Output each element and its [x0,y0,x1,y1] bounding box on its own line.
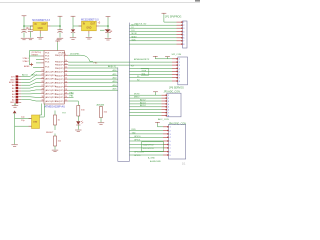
pin IC3 right 4 [64,67,68,69]
label R4 net [97,103,105,106]
microcontroller IC3 right pin names [55,55,64,103]
svg-text:3V3: 3V3 [11,76,16,78]
svg-text:PB0(ICP): PB0(ICP) [55,75,64,77]
bus vertical left segment [117,68,119,162]
wire reg1 output riser [59,17,61,26]
wire R4 bottom lead [100,118,102,123]
svg-text:20: 20 [65,96,67,98]
ground under J1 [12,103,18,107]
svg-text:MOSI: MOSI [134,94,140,96]
crystal Q1 labels [21,117,25,123]
svg-text:24: 24 [42,74,44,76]
wire R1 top lead [54,111,56,116]
supply symbol +V reg1 input [22,16,27,17]
wire reg1 input riser [23,17,25,26]
label reset net [46,132,54,134]
ground under R4 [98,123,104,125]
supply symbol conn2 [153,56,158,57]
svg-text:1k: 1k [58,120,61,122]
svg-text:PB3: PB3 [94,62,99,64]
svg-text:PB0(ICP): PB0(ICP) [55,62,64,64]
pin IC3 left lower 1 [41,70,45,72]
connector JP3 body [167,93,181,117]
svg-text:(ADC0)PC0: (ADC0)PC0 [45,96,57,99]
svg-text:A_GND: A_GND [148,157,155,160]
label net ADC bus [22,73,38,76]
supply symbol +3V3 reg1 output [58,16,63,17]
wire IC3 to JP2 row2 [68,61,172,63]
junction mcu reset [30,63,33,66]
wire reg1 input rail [24,25,33,27]
svg-text:31: 31 [42,100,44,102]
svg-text:OUT: OUT [90,24,95,26]
svg-text:A1: A1 [12,87,15,90]
svg-text:10k: 10k [58,141,62,143]
pin IC3 left upper 3 [41,62,45,64]
svg-text:1u: 1u [110,30,113,33]
svg-text:ADC_CON: ADC_CON [158,118,169,121]
ground under C2 [27,38,33,40]
ground under IC1 [37,37,43,39]
svg-text:OUT: OUT [42,24,47,26]
svg-text:MOSI: MOSI [132,33,138,35]
ground under C4 [70,38,76,40]
svg-text:XTAL1: XTAL1 [23,57,30,60]
labels JP3 nets [134,94,146,108]
svg-text:GPIO5: GPIO5 [134,155,141,157]
svg-text:(ADC0)PC0: (ADC0)PC0 [45,74,57,77]
connector JP1 body [183,21,188,48]
svg-text:25: 25 [42,77,44,79]
capacitor C4 [71,29,75,32]
wire mcu reset drop [28,51,30,65]
wire xtal1 up [40,104,42,116]
wire mcu left pin d [33,66,41,68]
svg-text:PB0(ICP): PB0(ICP) [55,65,64,67]
svg-text:RESET: RESET [46,132,54,134]
connector JP1 header label [165,15,181,18]
ground under R2 [52,150,58,152]
voltage regulator IC1 label [32,19,50,22]
svg-text:29: 29 [42,92,44,94]
label net top right [70,54,80,56]
svg-text:TST: TST [62,112,67,114]
pin IC3 right 1 [64,54,68,56]
microcontroller IC3 left pin names [45,52,50,68]
frame top edge line [0,2,200,4]
pin IC3 right 10 [64,89,68,91]
connector JP3 header label [164,91,181,94]
connector JP1 pin stubs [177,21,183,44]
connector JP4 body [169,125,186,159]
labels JP1 nets [132,23,147,41]
wire cap C2 top lead [30,26,32,30]
wires J1 to IC3 [21,71,40,101]
svg-text:(ADC0)PC0: (ADC0)PC0 [45,85,57,88]
svg-text:PB0(ICP): PB0(ICP) [55,94,64,96]
wire crystal rail [14,113,16,144]
svg-text:AGND/GND: AGND/GND [150,160,161,163]
wires bus to JP2 [129,68,172,81]
svg-text:18: 18 [65,89,67,91]
wire cap C5 bottom lead [107,33,109,38]
wire cap C3 top lead [59,26,61,30]
svg-text:22p: 22p [21,120,25,122]
wires bus to JP4 [129,131,163,156]
svg-text:JP6 SERVOS: JP6 SERVOS [169,87,184,90]
wire R3 to LED [77,116,79,121]
svg-text:A0: A0 [12,84,15,87]
svg-text:A5: A5 [12,99,15,102]
pin IC3 right 6 [64,75,68,77]
svg-text:330: 330 [81,109,85,111]
connector JP2 body [178,57,188,85]
connector JP2 value label [169,87,184,90]
bus bottom segment [118,161,130,163]
wire R2 bottom lead [54,146,56,150]
pin IC3 right 11 [64,93,68,95]
svg-text:PB1: PB1 [70,96,75,98]
wire cap C2 bottom lead [30,32,32,38]
label mcu left pin d [24,65,30,68]
svg-text:GPIO4/CS: GPIO4/CS [134,152,144,154]
labels JP4 bottom smudge [150,160,161,163]
svg-text:10: 10 [65,60,67,62]
supply symbol conn1 [162,13,167,14]
svg-text:JP1 SPI/PROG: JP1 SPI/PROG [165,15,181,18]
svg-text:DI: DI [132,27,134,29]
wire xtal2 up [40,104,45,118]
wire crystal lead 2 [15,125,32,127]
wire R2 top lead [54,134,56,137]
connector JP2 pin numbers [179,59,181,83]
svg-text:MC33269DT-5.0: MC33269DT-5.0 [81,18,99,21]
svg-text:(ADC0)PC0: (ADC0)PC0 [45,100,57,103]
capacitor C5 [105,29,111,32]
ground crystal rail [11,145,17,147]
pin IC3 left lower 8 [41,96,45,98]
pin IC3 left lower 2 [41,74,45,76]
pin IC3 right 12 [64,96,68,98]
svg-text:CMD/CS_SD: CMD/CS_SD [134,23,147,25]
pin IC3 left upper 1 [41,55,45,57]
svg-text:SDA/GPIO2: SDA/GPIO2 [143,143,155,146]
labels JP2 nets left [131,58,150,67]
capacitor C3 [57,30,62,33]
connector JP4 pin stubs [163,126,169,156]
svg-text:RX: RX [131,65,134,67]
voltage regulator IC2 body [82,21,97,31]
wires bus to JP1 [129,25,176,44]
svg-text:SCK: SCK [132,40,137,42]
svg-text:AD[0..5]: AD[0..5] [108,65,116,68]
labels JP4 nets lower [134,152,155,160]
bus vertical right segment [128,23,130,162]
wire IC3 to JP2 row3 [68,64,172,66]
svg-text:30: 30 [42,96,44,98]
pin IC3 left upper 4 [41,66,45,68]
svg-text:PB0: PB0 [70,92,75,94]
wire jumper arc [68,55,93,61]
connector JP2 pin stubs [172,58,178,82]
svg-text:PB0(ICP): PB0(ICP) [55,55,64,57]
wire mcu left pin c [36,62,41,64]
connector JP3 pin numbers [168,95,170,117]
svg-text:ADC2: ADC2 [140,98,146,101]
pin IC1 IN [30,25,33,27]
svg-text:GND: GND [10,102,15,104]
svg-text:IN: IN [34,24,37,26]
svg-text:SCL/GPIO3: SCL/GPIO3 [143,148,155,150]
LED D1 [76,121,83,125]
label mcu left pin a [23,57,30,60]
svg-text:12: 12 [65,67,67,69]
pin Q1 1 [29,117,32,119]
supply symbol +V reg2 input [71,16,76,17]
pin IC3 left lower 5 [41,85,45,87]
svg-text:(ADC0)PC0: (ADC0)PC0 [45,93,57,96]
svg-text:XTAL2: XTAL2 [23,60,30,63]
svg-text:GND: GND [10,79,15,81]
pin IC2 OUT [96,25,99,27]
resistor R1 [54,115,61,125]
pin IC3 right 13 [64,100,68,102]
ground under IC2 [86,37,92,39]
wire reset into mcu [29,55,40,57]
svg-text:1/1: 1/1 [182,163,186,166]
svg-text:15: 15 [65,78,67,80]
svg-text:(ADC0)PC0: (ADC0)PC0 [45,78,57,81]
svg-text:A2: A2 [12,90,15,93]
svg-text:AREF: AREF [9,81,15,84]
connector JP1 pin numbers [183,22,185,46]
pin IC1 GND [39,31,41,34]
label bus left top [108,65,116,68]
label reset cap [32,52,42,56]
svg-text:PB0(ICP): PB0(ICP) [55,97,64,99]
labels JP2 low nets [137,76,140,81]
svg-text:PB0(ICP): PB0(ICP) [55,101,64,103]
wire cap C5 top lead [107,26,109,29]
svg-text:RXD: RXD [132,129,137,131]
pin IC3 right 3 [64,64,68,66]
pin IC3 left lower 9 [41,100,45,102]
svg-text:ADC3: ADC3 [140,101,146,104]
wire cap C1 bottom lead [23,32,25,37]
svg-text:PB0(ICP): PB0(ICP) [55,90,64,92]
wire conn1 vcc [164,14,177,22]
svg-text:10k: 10k [104,111,108,113]
svg-text:13: 13 [65,70,67,72]
ground under C5 [105,38,111,40]
wire cap C4 bottom lead [72,33,74,38]
svg-text:27: 27 [42,85,44,87]
wire conn2 vcc [155,57,172,59]
svg-text:PB0(ICP): PB0(ICP) [55,68,64,70]
connector JP1 value label [172,54,182,56]
svg-text:23: 23 [42,70,44,72]
connector J1 pads [16,75,19,103]
supply symbol conn3 [153,92,158,95]
pin IC3 right 2 [64,61,68,63]
wire reg2 input riser [72,17,74,26]
label bus top [131,25,138,27]
svg-text:PB0(ICP): PB0(ICP) [55,86,64,88]
connector J1 pad labels [9,76,15,104]
svg-text:MISO: MISO [132,37,138,39]
wire reg2 input rail [73,25,82,27]
label sheet info [182,163,186,166]
svg-text:26: 26 [42,81,44,83]
svg-text:16M: 16M [33,122,37,124]
pin IC3 left lower 6 [41,89,45,91]
labels IC3 bus nets [112,69,117,91]
connector JP4 pin numbers [170,127,172,157]
frame top right mark [195,0,200,2]
wire cap C5 tap [100,29,105,31]
connector JP4 header label [169,122,187,125]
junction IC1 output [59,25,61,27]
svg-text:PB0(ICP): PB0(ICP) [55,72,64,74]
label mcu left pin b [23,60,30,63]
voltage regulator IC1 body [33,22,48,31]
wire cap C1 top lead [23,26,25,30]
svg-text:GND: GND [38,28,43,30]
resistor R3 [77,106,86,117]
label C1 value [26,27,31,30]
svg-text:16: 16 [65,81,67,83]
supply symbol VCC mcu [55,40,60,42]
svg-text:19: 19 [65,93,67,95]
resistor R4 [100,107,108,118]
svg-text:11: 11 [65,63,67,65]
wire R3 link [68,101,78,106]
svg-text:TXD: TXD [132,132,137,134]
capacitor C2 [28,30,33,32]
svg-text:ADC4: ADC4 [140,104,146,107]
pin IC3 right 9 [64,86,68,88]
svg-text:21: 21 [65,100,67,102]
svg-text:GPIO1: GPIO1 [134,139,141,141]
microcontroller IC3 left lower pin numbers [42,70,44,102]
pin IC3 left lower 3 [41,78,45,80]
wires bus to JP3 [129,95,161,115]
pin IC2 GND [88,31,90,34]
pin IC2 IN [79,25,82,27]
svg-text:(ADC0)PC0: (ADC0)PC0 [45,89,57,92]
connector JP3 value label [158,118,169,121]
wire IC1 gnd [39,34,41,37]
resistor R2 [54,136,62,146]
wire IC2 gnd [88,34,90,37]
pin IC3 left lower 4 [41,82,45,84]
wire cap C4 top lead [72,26,74,29]
pin IC3 right 5 [64,71,68,73]
svg-text:14: 14 [65,74,67,76]
svg-text:MISO: MISO [134,97,140,99]
wire cap C3 bottom lead [59,32,61,37]
pin IC3 left lower 7 [41,93,45,95]
svg-text:(ADC0)PC0: (ADC0)PC0 [45,70,57,73]
svg-text:AREF: AREF [24,65,30,68]
wire mcu left pin b [36,59,41,61]
label jumper net [94,62,99,64]
wires IC3 to bus [68,68,118,90]
wire IC1 output rail [51,25,61,27]
svg-text:A3: A3 [12,93,15,96]
wire LED to ground [77,125,79,129]
supply symbol conn4 [155,122,160,123]
svg-text:9: 9 [65,54,66,56]
voltage regulator IC2 label [81,18,99,21]
wire conn4 vcc [158,123,164,127]
svg-text:GND: GND [86,28,91,30]
supply arrow crystal rail [13,110,17,113]
svg-text:+5: +5 [98,21,101,24]
svg-text:17: 17 [65,85,67,87]
label net mcu bottom [62,112,67,114]
wires IC3 right short nets [68,92,74,97]
svg-text:A4: A4 [12,96,15,99]
svg-text:DO: DO [132,30,135,32]
svg-text:(ADC0)PC0: (ADC0)PC0 [45,81,57,84]
connector J1 pin stubs [18,77,21,103]
wire mcu top rail [29,50,57,52]
ground under C1 [21,38,27,40]
wire aref join [29,64,33,66]
microcontroller IC3 right pin numbers [65,54,67,102]
labels JP2 nets box [141,69,149,76]
svg-text:MC33269DT-3.3: MC33269DT-3.3 [32,19,50,22]
svg-text:SDA: SDA [142,69,147,72]
wire IC2 output rail [99,25,108,27]
pin IC3 right 7 [64,78,68,80]
pin IC3 left upper 2 [41,59,45,61]
svg-text:IN: IN [83,24,86,26]
pin IC3 right 8 [64,82,68,84]
ground under C3 [57,38,63,40]
pin IC1 OUT [48,25,51,27]
wire R4 top lead [100,105,102,108]
supply symbol conn2 b [165,57,170,59]
svg-text:/ADC1: /ADC1 [31,73,38,76]
label frame JP4 i2c [142,142,164,151]
wire mcu vcc riser [57,42,59,50]
label +5V arrow [98,21,101,24]
capacitor C1 [21,30,26,33]
wire crystal lead 1 [15,117,32,119]
label pin right top outside [58,53,66,55]
svg-text:ADC0: ADC0 [22,73,29,76]
svg-text:PB0(ICP): PB0(ICP) [55,79,64,81]
wire R1 bottom lead [54,125,56,130]
junction IC2 output [107,25,109,27]
labels JP4 nets upper [132,129,142,141]
microcontroller IC3 left lower pin names [45,70,57,103]
junction reg1 input [23,25,25,27]
pin Q1 2 [29,125,32,127]
wire reg2 output riser [107,18,109,27]
microcontroller IC3 value label [45,106,66,109]
svg-text:PB0(ICP): PB0(ICP) [55,83,64,85]
connector JP3 pin stubs [161,95,167,117]
ground under LED D1 [75,130,81,132]
svg-text:28: 28 [42,89,44,91]
svg-text:AD6/A6: AD6/A6 [97,103,105,106]
crystal Q1 body [32,115,40,129]
label C5 value [110,30,113,33]
microcontroller IC3 body [44,51,64,105]
